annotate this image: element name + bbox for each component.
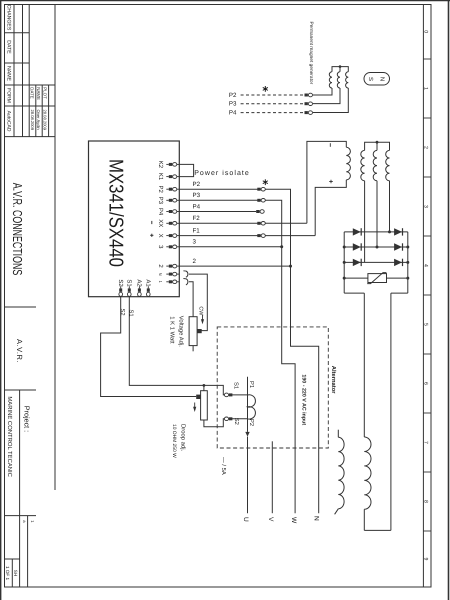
svg-text:W: W — [290, 517, 297, 524]
svg-text:3: 3 — [193, 239, 197, 246]
svg-text:28.08.2009: 28.08.2009 — [43, 110, 48, 131]
svg-text:S2: S2 — [117, 279, 124, 287]
svg-text:MX341/SX440: MX341/SX440 — [105, 159, 127, 267]
svg-text:1: 1 — [423, 87, 429, 90]
svg-text:A1: A1 — [144, 279, 151, 287]
svg-text:S: S — [367, 77, 374, 81]
svg-text:X: X — [157, 234, 164, 238]
svg-text:4: 4 — [423, 264, 429, 267]
svg-text:MARINE CONTROL TECANIC: MARINE CONTROL TECANIC — [6, 396, 13, 477]
svg-text:NAME: NAME — [36, 87, 41, 100]
svg-text:S2: S2 — [119, 309, 126, 316]
svg-text:S1: S1 — [125, 279, 132, 287]
svg-text:P4: P4 — [157, 208, 164, 216]
svg-text:U: U — [242, 517, 249, 522]
svg-text:F2: F2 — [193, 215, 201, 222]
svg-text:P4: P4 — [229, 110, 237, 117]
svg-text:DATE: DATE — [30, 87, 35, 98]
svg-text:P1: P1 — [248, 381, 254, 388]
svg-text:Permanent magnet generator: Permanent magnet generator — [308, 22, 314, 85]
svg-text:K1: K1 — [157, 173, 164, 181]
svg-text:Power isolate: Power isolate — [194, 169, 250, 177]
svg-text:1 K 1 Watt: 1 K 1 Watt — [169, 316, 176, 344]
svg-text:K2: K2 — [157, 161, 164, 169]
svg-text:3: 3 — [423, 205, 429, 208]
svg-text:Oner Aydin: Oner Aydin — [36, 110, 41, 131]
svg-text:S1: S1 — [128, 310, 135, 317]
svg-text:P2: P2 — [157, 186, 164, 194]
svg-text:S1: S1 — [233, 382, 240, 389]
svg-text:0: 0 — [423, 30, 429, 33]
svg-text:P3: P3 — [193, 192, 201, 199]
svg-text:P3: P3 — [229, 101, 237, 108]
svg-text:190 - 220 V AC input: 190 - 220 V AC input — [301, 374, 307, 425]
svg-text:P2: P2 — [248, 419, 255, 426]
svg-text:7: 7 — [423, 441, 429, 444]
svg-text:DATE: DATE — [5, 40, 11, 54]
svg-text:SH: SH — [13, 570, 18, 576]
svg-text:Droop adj.: Droop adj. — [179, 424, 186, 452]
svg-text:6: 6 — [423, 382, 429, 385]
svg-text:A2: A2 — [136, 279, 143, 287]
svg-text:NAME: NAME — [5, 66, 11, 82]
svg-text:N: N — [158, 273, 163, 276]
svg-text:PLOT: PLOT — [42, 87, 47, 99]
svg-text:Voltage Adj.: Voltage Adj. — [178, 316, 185, 347]
svg-text:8: 8 — [423, 500, 429, 503]
svg-text:A.V.R. CONNECTIONS: A.V.R. CONNECTIONS — [10, 183, 25, 276]
svg-text:P3: P3 — [157, 197, 164, 205]
svg-text:28.08.2009: 28.08.2009 — [30, 110, 35, 131]
svg-text:5: 5 — [423, 323, 429, 326]
svg-text:Project :: Project : — [22, 406, 31, 432]
svg-text:N: N — [313, 516, 320, 521]
svg-text:10 OHM 250 W: 10 OHM 250 W — [171, 424, 177, 458]
svg-text:P2: P2 — [193, 181, 201, 188]
svg-text:V: V — [267, 517, 274, 522]
svg-text:Alternator: Alternator — [330, 366, 337, 394]
svg-text:P4: P4 — [193, 203, 201, 210]
svg-text:CHANGES: CHANGES — [5, 5, 11, 31]
svg-text:AutoCAD: AutoCAD — [5, 111, 11, 132]
svg-text:N: N — [379, 77, 386, 81]
svg-text:XX: XX — [157, 219, 164, 227]
svg-text:A.V.R.: A.V.R. — [15, 339, 24, 363]
svg-text:FORM: FORM — [5, 88, 11, 103]
svg-text:P2: P2 — [229, 92, 237, 99]
svg-text:— / 5A: — / 5A — [220, 457, 227, 475]
svg-text:S2: S2 — [233, 418, 240, 425]
svg-text:9: 9 — [423, 558, 429, 561]
svg-text:1 OF 1: 1 OF 1 — [5, 566, 10, 580]
svg-text:2: 2 — [423, 146, 429, 149]
svg-text:F1: F1 — [193, 227, 201, 234]
svg-text:2: 2 — [193, 258, 197, 265]
